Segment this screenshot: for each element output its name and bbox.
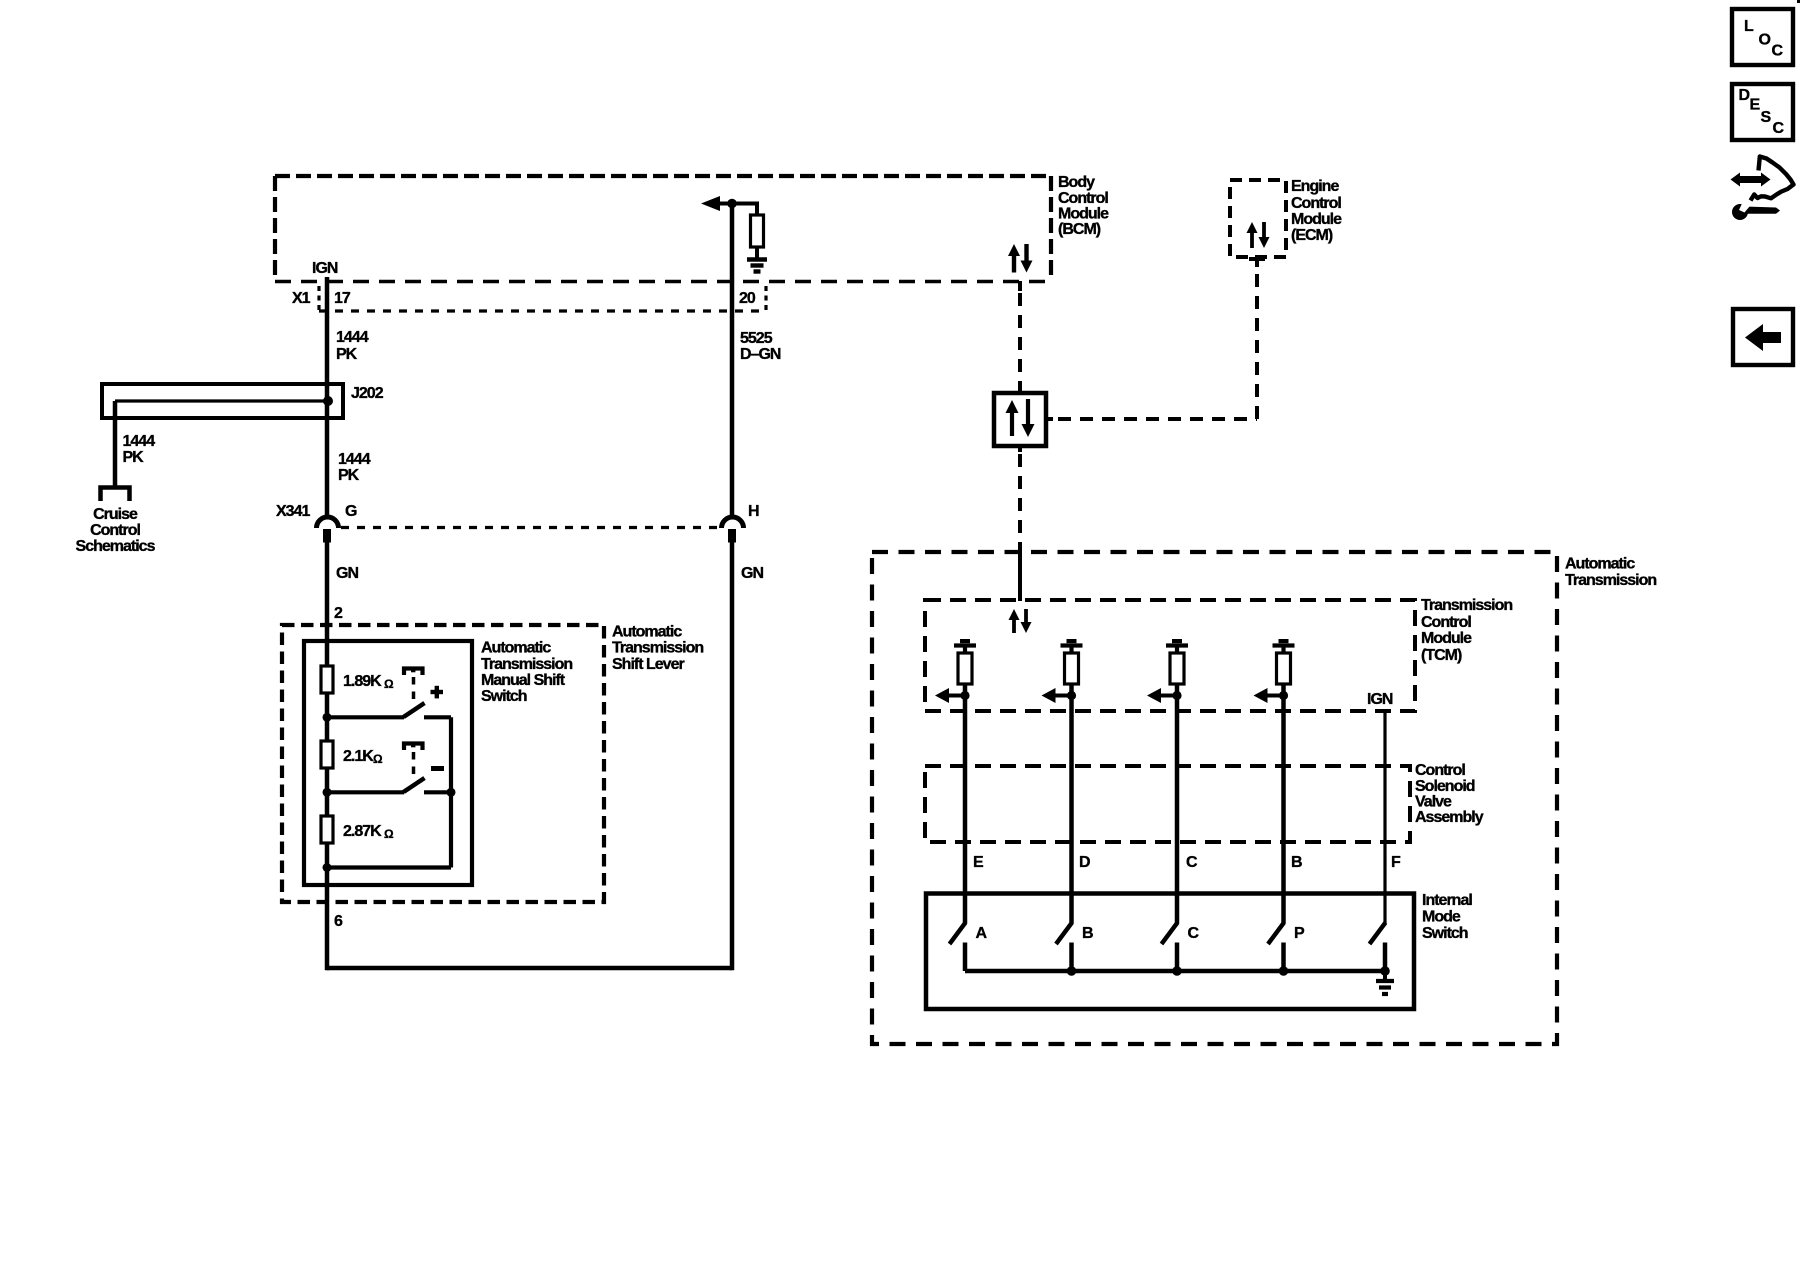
svg-text:D: D xyxy=(1739,87,1750,104)
bus junction dots xyxy=(1067,966,1077,976)
svg-text:20: 20 xyxy=(739,290,756,307)
BCM internal arrow to left xyxy=(701,196,720,211)
data link box arrows xyxy=(1006,400,1019,413)
svg-text:PK: PK xyxy=(336,346,358,363)
svg-text:Engine: Engine xyxy=(1291,178,1339,195)
ECM up/down arrows xyxy=(1247,222,1258,233)
back arrow icon box xyxy=(1733,309,1793,365)
resistor 2.1K xyxy=(321,741,333,768)
svg-text:Automatic: Automatic xyxy=(1565,556,1635,573)
svg-text:6: 6 xyxy=(334,913,343,930)
svg-text:(BCM): (BCM) xyxy=(1058,221,1101,238)
switch + dashed actuator post xyxy=(412,677,416,701)
svg-text:Internal: Internal xyxy=(1422,892,1472,909)
svg-text:Shift Lever: Shift Lever xyxy=(612,656,684,673)
Control Solenoid Valve Assembly dashed box xyxy=(925,766,1410,842)
wire tap lower switch xyxy=(327,790,404,794)
dashed wire data link to ECM xyxy=(1058,417,1257,421)
svg-text:H: H xyxy=(748,503,759,520)
svg-text:1444: 1444 xyxy=(338,451,371,468)
wire solenoid D down to mode switch xyxy=(1069,696,1074,924)
wire from + switch to common xyxy=(424,715,451,719)
svg-text:PK: PK xyxy=(338,467,360,484)
BCM bottom stub xyxy=(1018,281,1022,291)
wire: IGN vertical (pin 17 down to X341 G) xyxy=(325,277,330,518)
Automatic Transmission Manual Shift Switch box xyxy=(304,641,472,885)
resistor 2.87K xyxy=(321,816,333,843)
svg-text:A: A xyxy=(976,925,988,942)
svg-text:Transmission: Transmission xyxy=(1565,572,1656,589)
junction dot BCM xyxy=(727,199,737,209)
svg-text:1.89K: 1.89K xyxy=(343,673,382,690)
svg-text:G: G xyxy=(345,503,357,520)
minus sign xyxy=(431,766,444,771)
svg-text:Manual Shift: Manual Shift xyxy=(481,672,566,689)
driver arrow D xyxy=(1042,688,1056,703)
resistor 1.89K xyxy=(321,666,333,693)
Automatic Transmission Shift Lever dashed box xyxy=(282,625,604,902)
connector X341 dashed line G to H xyxy=(341,526,721,529)
svg-text:IGN: IGN xyxy=(1367,691,1393,708)
svg-text:Transmission: Transmission xyxy=(612,640,703,657)
svg-text:Module: Module xyxy=(1058,206,1109,223)
svg-text:(ECM): (ECM) xyxy=(1291,227,1333,244)
svg-text:1444: 1444 xyxy=(336,329,369,346)
stub right of data link box xyxy=(1046,417,1053,421)
svg-text:L: L xyxy=(1744,18,1754,35)
svg-text:Automatic: Automatic xyxy=(612,624,682,641)
svg-text:Module: Module xyxy=(1291,211,1342,228)
solenoid driver E (TCM output) xyxy=(960,639,970,643)
wire to BCM pull-up resistor xyxy=(732,204,757,217)
svg-text:P: P xyxy=(1294,925,1305,942)
svg-text:PK: PK xyxy=(123,449,145,466)
svg-text:Body: Body xyxy=(1058,174,1095,191)
back arrow xyxy=(1745,324,1781,351)
svg-text:Automatic: Automatic xyxy=(481,640,551,657)
svg-text:Transmission: Transmission xyxy=(481,656,572,673)
wire: GN down from G through shift switch xyxy=(325,529,330,970)
svg-text:Mode: Mode xyxy=(1422,909,1461,926)
plus sign xyxy=(431,690,444,694)
switch - dashed actuator post xyxy=(412,752,416,776)
Body Control Module (BCM) dashed box xyxy=(275,174,1051,178)
svg-text:2: 2 xyxy=(334,605,343,622)
splice J202 bus bar xyxy=(102,384,343,418)
svg-text:Switch: Switch xyxy=(1422,925,1468,942)
svg-text:C: C xyxy=(1772,43,1784,60)
svg-text:Module: Module xyxy=(1421,630,1472,647)
svg-text:Ω: Ω xyxy=(384,827,394,841)
svg-text:Ω: Ω xyxy=(373,752,383,766)
svg-text:B: B xyxy=(1291,854,1302,871)
wire tap upper switch xyxy=(327,715,404,719)
svg-text:17: 17 xyxy=(334,290,351,307)
svg-text:C: C xyxy=(1186,854,1198,871)
svg-text:Valve: Valve xyxy=(1415,794,1452,811)
corner mark xyxy=(1797,0,1800,3)
resistor (BCM internal pull-up) xyxy=(751,215,764,247)
wire: branch to cruise control xyxy=(113,401,118,487)
wire solenoid E down to mode switch xyxy=(963,696,968,924)
dashed wire BCM to data link connector xyxy=(1018,293,1022,382)
svg-text:E: E xyxy=(1750,97,1761,114)
connector X1 separator xyxy=(317,286,320,310)
svg-text:(TCM): (TCM) xyxy=(1421,647,1462,664)
connector arc G xyxy=(317,517,339,528)
pin H stub xyxy=(728,529,736,543)
svg-text:D–GN: D–GN xyxy=(740,346,781,363)
svg-text:F: F xyxy=(1391,854,1401,871)
connector pin 20 separator xyxy=(764,286,767,310)
ground (BCM internal) xyxy=(747,257,767,261)
bottom tap wire xyxy=(327,865,451,869)
svg-text:Control: Control xyxy=(1415,762,1465,779)
svg-text:O: O xyxy=(1759,32,1771,49)
wire from - switch to common xyxy=(424,790,451,794)
Engine Control Module (ECM) dashed box xyxy=(1230,180,1286,257)
svg-text:X1: X1 xyxy=(292,290,311,307)
svg-text:5525: 5525 xyxy=(740,330,773,347)
mode switch F blade xyxy=(1370,923,1386,945)
mode switch A blade xyxy=(950,923,966,945)
ECM bottom stub xyxy=(1249,257,1265,261)
junction dot J202 xyxy=(323,396,333,406)
svg-text:Switch: Switch xyxy=(481,688,527,705)
dashed wire data link down to TCM xyxy=(1018,446,1022,452)
solenoid driver D (TCM output) xyxy=(1067,639,1077,643)
svg-text:Assembly: Assembly xyxy=(1415,809,1484,826)
switch + actuator bracket xyxy=(404,669,423,676)
mode switch common bus xyxy=(965,969,1385,974)
TCM up/down arrows xyxy=(1009,609,1020,620)
Internal Mode Switch box xyxy=(926,894,1414,1010)
svg-text:J202: J202 xyxy=(351,385,384,402)
switch + blade xyxy=(404,703,425,717)
driver arrow B xyxy=(1254,688,1268,703)
solenoid driver C (TCM output) xyxy=(1172,639,1182,643)
Automatic Transmission dashed box xyxy=(872,552,1557,1044)
svg-text:1444: 1444 xyxy=(123,433,156,450)
Transmission Control Module (TCM) dashed box xyxy=(925,600,1415,711)
svg-text:D: D xyxy=(1079,854,1090,871)
svg-text:Ω: Ω xyxy=(384,677,394,691)
svg-text:IGN: IGN xyxy=(312,260,338,277)
svg-text:X341: X341 xyxy=(276,503,310,520)
switch - blade xyxy=(404,778,425,792)
switch - actuator bracket xyxy=(404,744,423,751)
svg-text:2.87K: 2.87K xyxy=(343,823,382,840)
ground stub xyxy=(1383,971,1387,979)
off-page connector to cruise control xyxy=(101,488,130,502)
mode switch C blade xyxy=(1162,923,1178,945)
driver arrow E xyxy=(935,688,949,703)
svg-text:S: S xyxy=(1761,109,1772,126)
svg-text:C: C xyxy=(1188,925,1200,942)
BCM data-link up/down arrows xyxy=(1008,244,1020,256)
vehicle/service icon (double arrow, outline, wrench) xyxy=(1731,173,1771,187)
pin G stub xyxy=(323,529,331,543)
svg-text:C: C xyxy=(1773,120,1785,137)
wire resistor to ground xyxy=(755,247,759,259)
wire: GN down from H xyxy=(730,529,735,970)
wire: bottom connecting run xyxy=(327,966,732,971)
svg-text:Schematics: Schematics xyxy=(76,538,156,555)
solenoid driver B (TCM output) xyxy=(1279,639,1289,643)
wire: right vertical 5525 D-GN (BCM to pin 20 to X341 H) xyxy=(730,203,735,518)
svg-text:GN: GN xyxy=(336,565,358,582)
data link connector box xyxy=(994,393,1046,446)
common vertical wire xyxy=(449,717,453,867)
mode switch P blade xyxy=(1268,923,1284,945)
mode switch B blade xyxy=(1056,923,1072,945)
wire solenoid C down to mode switch xyxy=(1175,696,1180,924)
svg-text:E: E xyxy=(973,854,984,871)
svg-text:B: B xyxy=(1082,925,1093,942)
connector row line (BCM bottom edge) xyxy=(275,280,1051,284)
svg-text:Solenoid: Solenoid xyxy=(1415,778,1475,795)
driver arrow C xyxy=(1147,688,1161,703)
svg-text:Cruise: Cruise xyxy=(93,506,138,523)
connector arc H xyxy=(722,517,744,528)
LOC icon box xyxy=(1732,9,1793,65)
svg-text:2.1K: 2.1K xyxy=(343,748,374,765)
wire IGN from TCM to mode switch xyxy=(1383,711,1386,924)
svg-text:Control: Control xyxy=(1058,190,1108,207)
connector row lower dashed line xyxy=(319,309,766,312)
wire solenoid B down to mode switch xyxy=(1281,696,1286,924)
DESC icon box xyxy=(1732,84,1793,140)
svg-text:GN: GN xyxy=(741,565,763,582)
svg-text:Control: Control xyxy=(90,522,140,539)
ground (internal mode switch) xyxy=(1376,979,1394,983)
svg-text:Control: Control xyxy=(1421,614,1471,631)
svg-text:Transmission: Transmission xyxy=(1421,597,1512,614)
svg-text:Control: Control xyxy=(1291,195,1341,212)
